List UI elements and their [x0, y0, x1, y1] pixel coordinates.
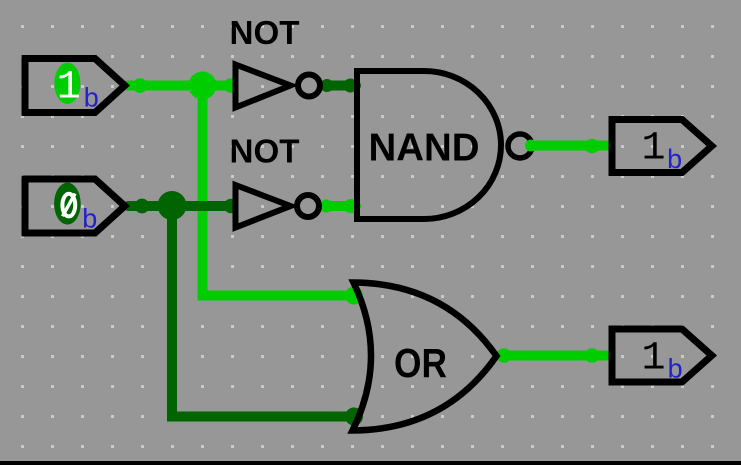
- port dot at NOT1 input: [224, 78, 238, 92]
- svg-text:b: b: [82, 204, 97, 234]
- port dot at NOT2 input: [224, 199, 238, 213]
- wire net A (value 1, bright green): [128, 72, 363, 305]
- wire pin2 to NOT2 input: [128, 201, 233, 211]
- NAND gate U3 bubble: [508, 134, 532, 158]
- wire junction A down and right to OR input: [203, 86, 356, 296]
- wire junction B down and right to OR bottom input: [172, 206, 355, 417]
- wire net B (value 0, dark green): [128, 191, 363, 426]
- OR gate U4 body: [353, 283, 497, 431]
- svg-text:b: b: [84, 83, 99, 113]
- junction A: [189, 72, 217, 100]
- wire NAND output to out-pin1 (bright green, overlays bubble edge): [525, 139, 606, 153]
- wire pin1 to NOT1 input: [128, 81, 233, 91]
- svg-text:1: 1: [641, 127, 665, 172]
- NOT gate U2 triangle: [236, 185, 291, 228]
- output pin OUT1: [612, 120, 712, 175]
- svg-text:NOT: NOT: [230, 133, 300, 170]
- output pin OUT2: [612, 329, 712, 383]
- junction B: [158, 191, 187, 220]
- value ellipse IN2: [54, 183, 81, 225]
- NOT gate U2 bubble: [297, 195, 319, 217]
- bottom window edge bar: [0, 461, 741, 465]
- svg-text:1: 1: [57, 66, 81, 111]
- port dot at pin2: [135, 199, 150, 214]
- svg-text:OR: OR: [394, 340, 447, 386]
- svg-text:NOT: NOT: [230, 14, 300, 51]
- value glyph slashed zero: [62, 194, 75, 217]
- NOT gate U1 bubble: [298, 75, 320, 97]
- port dot at OR bottom input: [345, 408, 363, 426]
- svg-text:b: b: [668, 353, 683, 383]
- port dot at OR top input: [345, 287, 363, 305]
- wire OR output to out-pin2 (bright green): [497, 348, 606, 363]
- svg-text:b: b: [667, 144, 682, 174]
- svg-text:1: 1: [641, 337, 665, 382]
- input pin IN1: [25, 59, 125, 113]
- wire NOT2 output to NAND bottom input (bright green): [320, 199, 358, 213]
- wire NOT1 output to NAND top input (dark green): [321, 79, 358, 93]
- value ellipse IN1: [54, 63, 80, 105]
- NAND gate U3 body: [357, 71, 501, 219]
- input pin IN2: [25, 179, 125, 234]
- svg-text:NAND: NAND: [369, 127, 480, 170]
- NOT gate U1 triangle: [236, 65, 291, 108]
- port dot at pin1: [133, 78, 148, 93]
